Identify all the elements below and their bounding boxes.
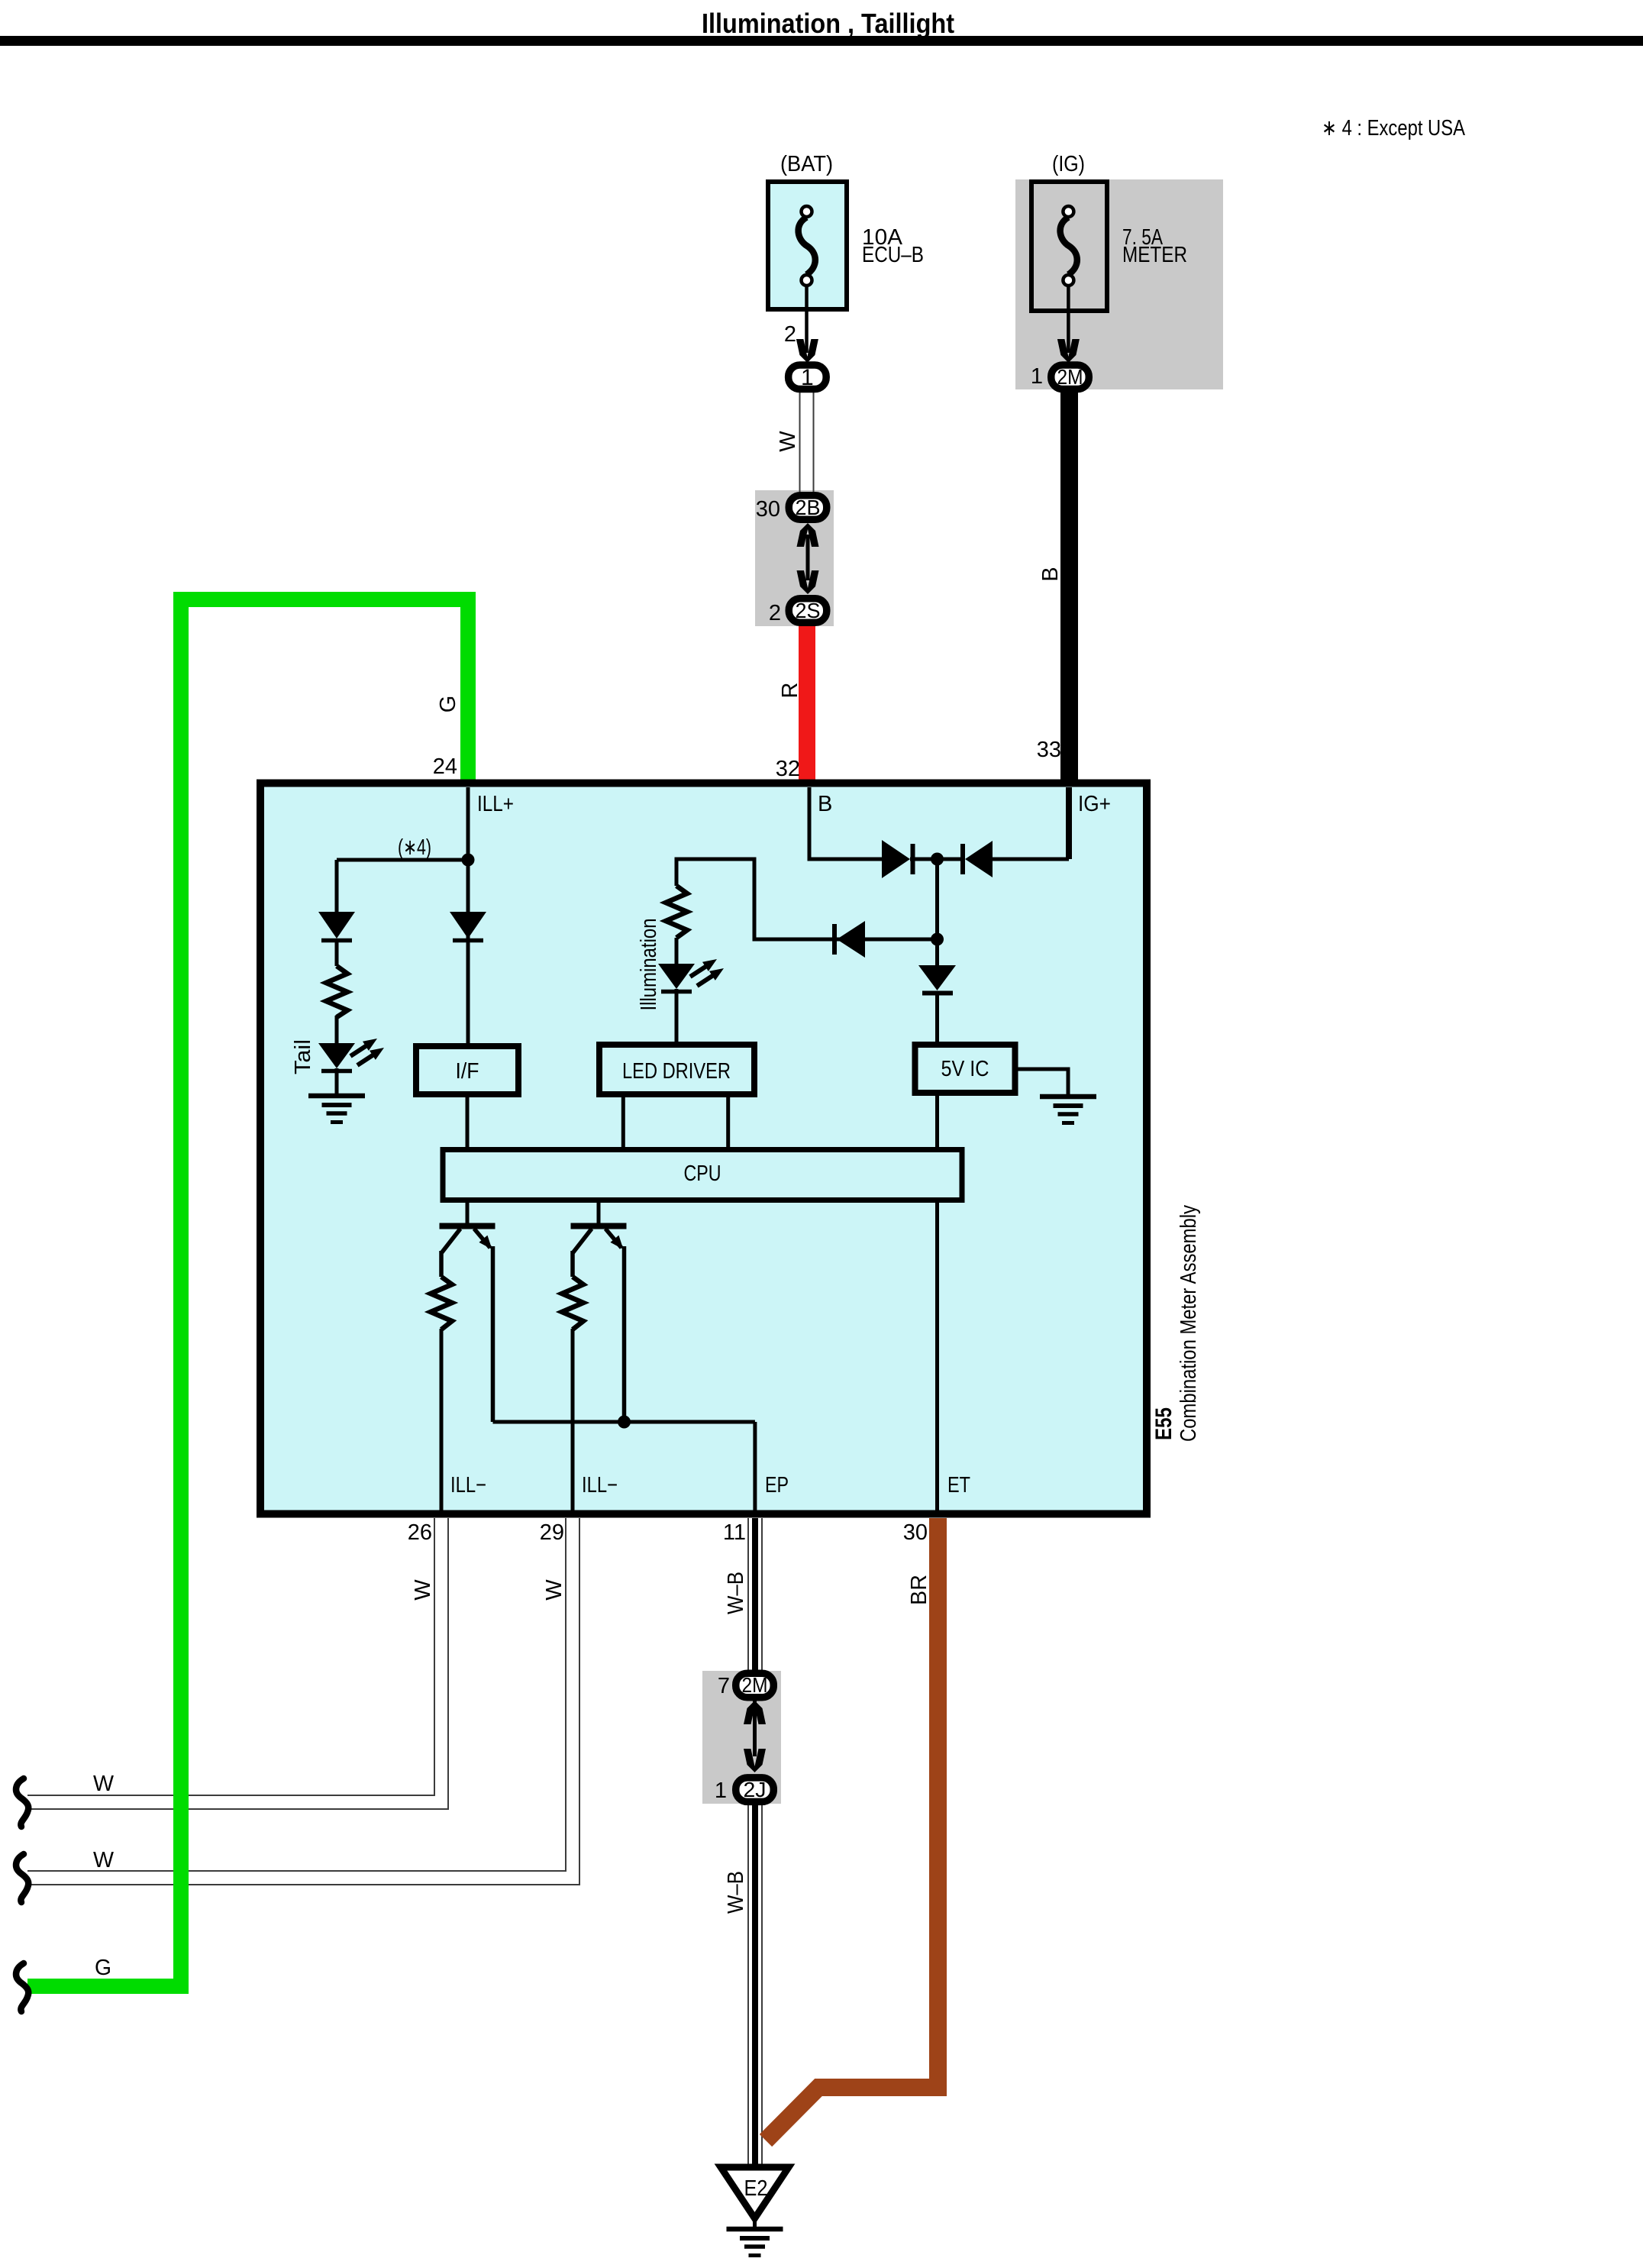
- svg-text:Illumination , Taillight: Illumination , Taillight: [702, 8, 954, 39]
- wire D7 to 5V IC: [935, 992, 939, 1046]
- svg-text:11: 11: [723, 1520, 746, 1545]
- arrow down above 2J: [744, 1749, 766, 1772]
- svg-text:1: 1: [1031, 364, 1043, 389]
- svg-text:2S: 2S: [796, 599, 821, 622]
- svg-text:BR: BR: [907, 1575, 931, 1605]
- svg-text:CPU: CPU: [684, 1161, 721, 1186]
- wire G green loop: [27, 599, 468, 1986]
- svg-text:W: W: [93, 1772, 115, 1796]
- fuse 7.5A METER (IG) box: [1031, 182, 1107, 311]
- combination meter assembly box E55: [260, 783, 1147, 1514]
- connector oval 2M lower: [736, 1673, 774, 1698]
- grey panel behind junction connector 2M/2J: [702, 1671, 781, 1804]
- resistor R2 illumination: [666, 886, 687, 938]
- wire R2 to LED illumination: [675, 938, 679, 965]
- wire junction to tail branch: [337, 860, 468, 913]
- ground E2 bars: [727, 2229, 783, 2256]
- box I/F: [416, 1046, 518, 1094]
- wire fuse IG to connector 2M: [1067, 286, 1070, 353]
- svg-text:2: 2: [769, 601, 781, 625]
- svg-text:ET: ET: [947, 1473, 970, 1497]
- transistor Q2 collector leg with arrow: [605, 1229, 625, 1423]
- wire between arrows: [753, 1699, 757, 1756]
- transistor Q2 base bar: [571, 1223, 627, 1229]
- svg-text:30: 30: [756, 497, 780, 522]
- wire W-B pin 11 upper segment: [748, 1518, 762, 1674]
- wire between arrows: [806, 535, 810, 580]
- wire fuse BAT to connector 1: [805, 286, 809, 353]
- wire R4 to ILL- pin 29: [571, 1329, 575, 1514]
- wire D5 to IG+ line: [993, 858, 1069, 861]
- pigtail connector G: [16, 1963, 28, 2011]
- connector oval 2S: [789, 599, 827, 623]
- svg-text:W: W: [776, 431, 800, 452]
- LED Tail: [318, 1043, 355, 1068]
- wires LED DRIVER to CPU: [623, 1094, 728, 1150]
- wire 5V IC down to ET pin (under CPU): [935, 1094, 939, 1514]
- arrow down to connector 1: [796, 339, 818, 363]
- arrow down above 2S: [797, 570, 819, 594]
- svg-text:METER: METER: [1122, 243, 1187, 267]
- svg-text:33: 33: [1037, 738, 1061, 762]
- svg-text:G: G: [95, 1956, 111, 1980]
- fuse 10A ECU-B (BAT) box: [768, 182, 847, 309]
- wire W pin 26 to left pigtail: [27, 1518, 448, 1809]
- fuse BAT symbol: [799, 218, 815, 275]
- svg-text:W–B: W–B: [724, 1871, 748, 1914]
- ground under tail LED: [335, 1068, 339, 1094]
- svg-text:2M: 2M: [742, 1673, 768, 1697]
- wire W (white) from connector 1 to 2B: [800, 391, 814, 494]
- diode D7 down-pointing: [935, 939, 939, 968]
- junction node dot EP: [618, 1416, 631, 1429]
- transistor Q1 base wire: [466, 1200, 470, 1223]
- resistor R3: [431, 1277, 452, 1329]
- svg-text:1: 1: [715, 1779, 727, 1803]
- box CPU: [443, 1150, 962, 1200]
- ground E2 triangle: [721, 2167, 789, 2218]
- svg-text:32: 32: [776, 757, 800, 781]
- svg-text:I/F: I/F: [456, 1059, 479, 1084]
- diode D1 tail branch: [318, 912, 355, 939]
- transistor Q2 emitter leg left: [573, 1229, 592, 1277]
- illumination branch wire: [676, 859, 938, 939]
- svg-text:W–B: W–B: [724, 1572, 748, 1614]
- transistor Q1 base bar: [440, 1223, 495, 1229]
- svg-text:26: 26: [408, 1520, 432, 1545]
- svg-text:R: R: [778, 683, 802, 699]
- box 5V IC: [915, 1045, 1015, 1093]
- junction node dot ILL+: [462, 854, 475, 867]
- svg-text:LED DRIVER: LED DRIVER: [622, 1059, 731, 1084]
- fuse IG symbol: [1060, 218, 1077, 275]
- title rule: [0, 36, 1643, 46]
- LED Illumination: [658, 964, 695, 989]
- svg-text:E2: E2: [744, 2176, 768, 2201]
- svg-text:IG+: IG+: [1078, 792, 1111, 816]
- svg-text:(BAT): (BAT): [780, 152, 833, 176]
- svg-text:29: 29: [540, 1520, 564, 1545]
- wire 5V IC to ground: [1015, 1069, 1068, 1097]
- wire I/F to CPU: [466, 1094, 470, 1150]
- arrow up below 2B: [797, 523, 819, 547]
- svg-text:W: W: [93, 1848, 115, 1872]
- svg-text:2M: 2M: [1057, 365, 1083, 389]
- wire IG+ pin down: [1066, 787, 1072, 859]
- svg-text:E55: E55: [1151, 1407, 1177, 1440]
- wire B pin to diode row: [809, 787, 882, 859]
- svg-text:2: 2: [784, 322, 796, 347]
- svg-text:1: 1: [801, 365, 814, 390]
- pigtail connector W upper: [16, 1779, 28, 1827]
- wire D1 to R1: [335, 939, 339, 966]
- resistor R4: [562, 1277, 583, 1329]
- connector oval 2J: [736, 1778, 774, 1802]
- connector oval 2M (IG): [1051, 365, 1089, 389]
- wire LED to LED DRIVER box: [675, 989, 679, 1046]
- svg-text:Combination Meter Assembly: Combination Meter Assembly: [1177, 1205, 1201, 1442]
- wire R3 to ILL- pin 26: [440, 1329, 444, 1514]
- diode D2 on ILL+ line: [450, 912, 486, 939]
- svg-text:2J: 2J: [744, 1778, 767, 1801]
- svg-text:ILL−: ILL−: [450, 1473, 486, 1497]
- svg-text:ILL−: ILL−: [582, 1473, 618, 1497]
- ground E2 stem: [753, 2218, 757, 2228]
- pigtail connector W lower: [16, 1854, 28, 1902]
- wire EP joining line: [493, 1422, 755, 1514]
- wire W pin 29 to left pigtail: [27, 1518, 579, 1885]
- ground at 5V IC: [1040, 1097, 1096, 1123]
- svg-text:Illumination: Illumination: [637, 919, 661, 1011]
- svg-text:B: B: [818, 792, 832, 816]
- grey panel behind junction connector 2B/2S: [755, 490, 834, 626]
- svg-text:Tail: Tail: [291, 1039, 315, 1074]
- svg-text:∗ 4 : Except USA: ∗ 4 : Except USA: [1322, 116, 1466, 141]
- svg-text:24: 24: [433, 754, 457, 779]
- arrow up below 2M: [744, 1701, 766, 1724]
- diode D6 left-pointing on lower row: [832, 924, 837, 955]
- arrow down to connector 2M: [1057, 339, 1080, 363]
- node ILL+ vertical wire: [466, 787, 470, 1046]
- svg-text:7: 7: [718, 1674, 730, 1698]
- svg-text:G: G: [436, 696, 460, 713]
- svg-text:(IG): (IG): [1052, 152, 1085, 176]
- diode D4 right-pointing: [882, 840, 910, 878]
- svg-text:30: 30: [903, 1520, 928, 1545]
- svg-text:W: W: [411, 1579, 435, 1601]
- wire B black from 2M to pin 33: [1060, 388, 1078, 780]
- diode D5 left-pointing: [960, 844, 965, 874]
- svg-text:ECU–B: ECU–B: [862, 243, 924, 267]
- svg-text:5V IC: 5V IC: [941, 1057, 989, 1081]
- svg-text:EP: EP: [765, 1473, 789, 1497]
- wire junction dot column: [935, 859, 939, 941]
- svg-text:W: W: [542, 1579, 566, 1601]
- connector oval 1 (BAT): [789, 365, 827, 389]
- wire W-B lower segment to E2: [748, 1802, 762, 2167]
- wire between facing diodes: [910, 858, 964, 861]
- box LED DRIVER: [599, 1045, 754, 1094]
- connector oval 2B: [789, 496, 827, 520]
- wire BR from ET pin to ground join: [766, 1518, 938, 2140]
- resistor R1 tail: [326, 966, 347, 1017]
- wire R red from 2S to pin 32: [799, 623, 815, 780]
- svg-text:ILL+: ILL+: [477, 792, 514, 816]
- svg-text:(∗4): (∗4): [398, 835, 431, 860]
- grey panel behind IG fuse: [1015, 179, 1223, 389]
- svg-text:B: B: [1038, 567, 1063, 581]
- transistor Q1 collector leg with arrow: [474, 1229, 493, 1422]
- svg-text:2B: 2B: [796, 496, 821, 519]
- junction node dot lower: [931, 933, 944, 946]
- transistor Q2 base wire: [597, 1200, 601, 1223]
- transistor Q1 emitter leg left: [441, 1229, 460, 1277]
- junction node dot upper: [931, 853, 944, 866]
- wire R1 to LED tail: [335, 1016, 339, 1046]
